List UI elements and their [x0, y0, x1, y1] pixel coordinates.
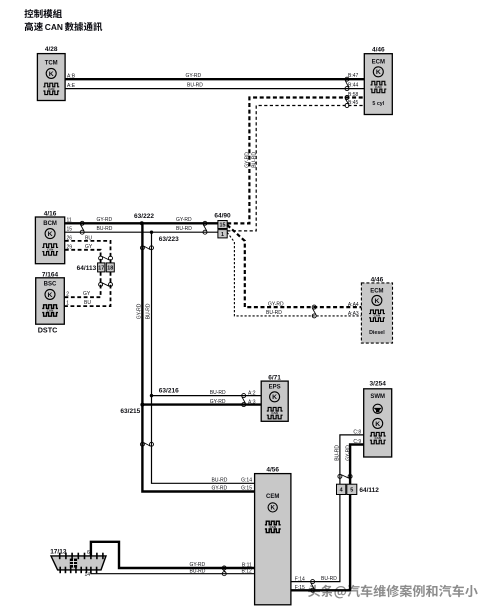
svg-text:BU-RD: BU-RD: [176, 226, 192, 232]
wire BU-RD 63/216 to EPS A:2: [152, 395, 262, 397]
svg-text:GY: GY: [85, 244, 93, 250]
twisted pair marker: [140, 442, 153, 446]
svg-text:EPS: EPS: [269, 385, 281, 391]
twisted pair marker: [242, 394, 246, 407]
svg-text:B:44: B:44: [348, 83, 359, 89]
svg-text:GY-RD: GY-RD: [245, 152, 251, 168]
wire BU-RD trunk 63/223 to CEM G:14: [152, 232, 255, 483]
svg-text:K: K: [48, 231, 53, 238]
svg-text:A:A4: A:A4: [348, 302, 359, 308]
svg-text:SWM: SWM: [370, 394, 385, 400]
wire BU-RD 64/112:4 to CEM F:14: [291, 495, 340, 582]
twisted pair marker: [312, 305, 316, 318]
svg-text:A:A3: A:A3: [348, 311, 359, 317]
svg-text:K: K: [376, 69, 381, 76]
svg-text:BU: BU: [84, 300, 91, 306]
svg-text:GY-RD: GY-RD: [210, 399, 226, 405]
svg-text:GY-RD: GY-RD: [97, 217, 113, 223]
control module 6/71 EPS: [261, 375, 288, 422]
svg-text:26: 26: [67, 235, 73, 241]
svg-text:C:9: C:9: [353, 439, 361, 445]
twisted pair marker: [345, 96, 349, 108]
svg-text:C:8: C:8: [353, 429, 361, 435]
svg-text:64/113: 64/113: [77, 265, 97, 272]
svg-text:4/28: 4/28: [45, 46, 58, 53]
svg-text:CAN: CAN: [374, 314, 381, 318]
wire BU dashed 64/113:18 to DSTC 1: [64, 272, 110, 306]
svg-text:CAN: CAN: [374, 436, 381, 440]
svg-text:11: 11: [67, 218, 72, 224]
svg-text:GY: GY: [83, 291, 91, 297]
svg-text:3/254: 3/254: [370, 380, 387, 387]
svg-text:GY-RD: GY-RD: [212, 485, 228, 491]
svg-text:5 cyl: 5 cyl: [372, 101, 384, 107]
svg-text:BU-RD: BU-RD: [212, 478, 228, 484]
wire BU-RD dashed 64/90:1 to ECM B:45: [227, 106, 364, 231]
svg-text:G:14: G:14: [241, 478, 252, 484]
wire GY-RD dashed 64/90:15 to ECM B:58: [227, 98, 364, 224]
svg-text:18: 18: [107, 266, 113, 272]
wire BU-RD SWM C:8 to 64/112:4: [340, 435, 364, 484]
wire GY-RD TCM A:B to ECM B:47: [65, 78, 364, 80]
svg-text:K: K: [270, 505, 275, 512]
svg-text:CAN: CAN: [271, 411, 278, 415]
wire BU-RD OBD pin14 to CEM B:12: [91, 570, 255, 574]
svg-text:5: 5: [350, 487, 353, 493]
wire BU-RD BCM 15 to 64/90:1: [65, 231, 218, 233]
title 控制模組 / 高速 CAN 數據通訊: [24, 9, 102, 32]
svg-text:A:2: A:2: [248, 391, 256, 397]
twisted pair marker: [99, 283, 113, 287]
wire GY-RD dashed 64/90:15 to ECM diesel A:A4: [227, 225, 361, 307]
svg-text:BU-RD: BU-RD: [335, 445, 341, 461]
svg-text:BU-RD: BU-RD: [266, 310, 282, 316]
control module 4/56 CEM: [255, 467, 291, 605]
control module 4/28 TCM: [37, 46, 65, 100]
svg-text:GY-RD: GY-RD: [268, 301, 284, 307]
svg-text:63/223: 63/223: [159, 236, 179, 243]
wire GY dashed 64/113:17 to DSTC 2: [64, 272, 100, 297]
svg-text:K: K: [375, 421, 380, 428]
svg-text:6: 6: [87, 550, 90, 556]
node 63/215: [120, 403, 144, 416]
svg-text:CEM: CEM: [266, 494, 279, 500]
svg-text:63/222: 63/222: [134, 213, 154, 220]
svg-text:B:12: B:12: [242, 569, 253, 575]
wire GY-RD SWM C:9 to 64/112:5: [350, 445, 364, 485]
svg-text:17: 17: [98, 266, 104, 272]
node 63/216: [150, 388, 179, 398]
wire BU-RD dashed 64/90:1 to ECM diesel A:A3: [227, 232, 361, 316]
wire GY dashed BCM 29 to 64/113:17: [65, 250, 101, 263]
control module 4/16 BCM: [35, 211, 64, 264]
svg-text:GY-RD: GY-RD: [345, 445, 351, 461]
svg-text:17/13: 17/13: [50, 548, 67, 555]
twisted pair marker: [140, 246, 153, 250]
svg-text:GY-RD: GY-RD: [186, 73, 202, 79]
svg-text:BU-RD: BU-RD: [146, 303, 152, 319]
svg-text:B:45: B:45: [348, 100, 359, 106]
wire BU dashed BCM 26 to 64/113:18: [65, 241, 111, 263]
twisted pair marker: [203, 221, 207, 234]
connector 64/90: [214, 212, 231, 238]
svg-text:CAN: CAN: [48, 87, 55, 91]
svg-text:A:E: A:E: [67, 83, 76, 89]
svg-text:63/216: 63/216: [159, 388, 179, 395]
svg-text:2: 2: [66, 291, 69, 297]
wire GY-RD trunk 63/222 to CEM G:15: [142, 223, 254, 491]
svg-text:BU: BU: [85, 235, 92, 241]
svg-text:K: K: [272, 394, 277, 401]
svg-text:GY-RD: GY-RD: [190, 562, 206, 568]
svg-text:29: 29: [67, 244, 73, 250]
svg-text:BSC: BSC: [44, 282, 57, 288]
wire GY-RD BCM 11 to 64/90:15: [65, 222, 218, 224]
wire GY-RD 64/112:5 to CEM F:15: [291, 495, 350, 591]
svg-text:ECM: ECM: [370, 288, 383, 294]
twisted pair marker: [338, 474, 352, 478]
connector 64/113: [77, 263, 115, 272]
twisted pair marker: [99, 256, 113, 260]
svg-text:BU-RD: BU-RD: [251, 152, 257, 168]
svg-text:4: 4: [340, 487, 343, 493]
svg-text:1: 1: [221, 232, 224, 238]
svg-text:BU-RD: BU-RD: [187, 82, 203, 88]
svg-text:63/215: 63/215: [120, 408, 140, 415]
control module 3/254 SWM: [364, 380, 392, 457]
node 63/222: [134, 213, 154, 226]
control module 7/164 BSC DSTC: [36, 272, 65, 335]
svg-text:A:3: A:3: [248, 400, 256, 406]
connector 17/13 OBD diagnostic socket: [50, 548, 106, 573]
svg-text:K: K: [48, 292, 53, 299]
svg-text:CAN: CAN: [375, 85, 382, 89]
svg-text:BU-RD: BU-RD: [97, 226, 113, 232]
twisted pair marker: [311, 580, 315, 593]
control module 4/46 ECM 5cyl: [364, 46, 392, 114]
svg-text:64/112: 64/112: [359, 487, 379, 494]
svg-text:K: K: [49, 71, 54, 78]
svg-text:F:14: F:14: [295, 577, 305, 583]
svg-text:15: 15: [220, 223, 226, 229]
svg-text:ECM: ECM: [372, 60, 385, 66]
svg-text:DSTC: DSTC: [38, 326, 58, 335]
twisted pair marker: [222, 566, 226, 576]
wire BU-RD TCM A:E to ECM B:44: [65, 88, 364, 90]
svg-text:K: K: [374, 298, 379, 305]
twisted pair marker: [80, 221, 84, 234]
wire GY-RD 63/215 to EPS A:3: [142, 403, 261, 405]
svg-text:1: 1: [66, 300, 69, 306]
node 63/223: [150, 231, 179, 243]
svg-text:TCM: TCM: [45, 60, 58, 66]
svg-text:14: 14: [84, 572, 90, 578]
svg-text:GY-RD: GY-RD: [136, 303, 142, 319]
svg-text:64/90: 64/90: [214, 212, 231, 219]
twisted pair marker: [345, 77, 349, 90]
svg-text:A:B: A:B: [67, 74, 76, 80]
svg-text:4/56: 4/56: [266, 467, 279, 474]
svg-text:G:15: G:15: [241, 485, 252, 491]
svg-text:BU-RD: BU-RD: [321, 576, 337, 582]
wire GY-RD OBD pin6 to CEM B:11: [91, 542, 255, 568]
svg-text:CAN: CAN: [47, 248, 54, 252]
svg-text:B:47: B:47: [348, 73, 359, 79]
watermark text: [308, 585, 478, 599]
svg-text:B:58: B:58: [348, 92, 359, 98]
svg-text:BCM: BCM: [43, 221, 57, 227]
svg-text:4/46: 4/46: [372, 46, 385, 53]
svg-text:15: 15: [67, 227, 73, 233]
svg-text:GY-RD: GY-RD: [176, 217, 192, 223]
connector 64/112: [337, 484, 380, 494]
svg-text:CAN: CAN: [45, 22, 63, 32]
svg-text:BU-RD: BU-RD: [210, 390, 226, 396]
svg-text:BU-RD: BU-RD: [190, 568, 206, 574]
svg-text:F:15: F:15: [295, 585, 305, 591]
control module 4/46 ECM diesel: [361, 277, 392, 344]
svg-text:Diesel: Diesel: [369, 330, 385, 336]
